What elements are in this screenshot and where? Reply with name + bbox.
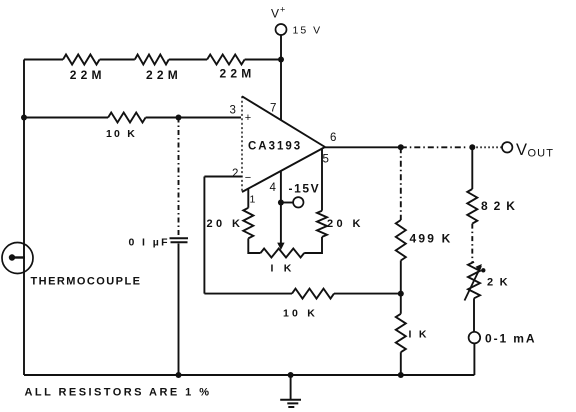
wire meter to bottom rail [473, 343, 475, 375]
wire output to Vout junction [401, 146, 467, 148]
resistor R2 22M [135, 55, 169, 65]
svg-text:3: 3 [230, 105, 237, 117]
svg-text:15 V: 15 V [293, 25, 323, 37]
svg-text:V: V [516, 141, 527, 159]
svg-text:20 K: 20 K [327, 218, 364, 230]
wire R9 bottom lead [400, 261, 402, 294]
wire R11 to R12 [471, 224, 473, 262]
svg-text:4: 4 [270, 182, 277, 194]
terminal VOUT [502, 142, 512, 152]
svg-text:7: 7 [270, 103, 277, 115]
wire pin2 stub [204, 176, 242, 178]
svg-text:ALL RESISTORS ARE 1 %: ALL RESISTORS ARE 1 % [25, 387, 212, 399]
wire top rail segment d [245, 59, 281, 61]
svg-text:I K: I K [271, 263, 296, 275]
rheostat R12 arrow [465, 266, 482, 301]
svg-text:0 I µF: 0 I µF [129, 237, 170, 249]
wire V+ to top rail [280, 35, 282, 60]
svg-text:I K: I K [409, 329, 429, 341]
junction bottom cap [176, 372, 182, 378]
svg-text:−: − [245, 172, 251, 184]
svg-text:+: + [280, 5, 285, 15]
wire R10 bottom lead [400, 352, 402, 375]
wire R10 top lead [400, 294, 402, 314]
svg-text:20 K: 20 K [207, 218, 244, 230]
ground stub [290, 375, 292, 399]
wire top rail segment c [169, 59, 207, 61]
wire R9 top lead [400, 147, 402, 220]
thermocouple TC1 body [2, 243, 33, 274]
op-amp U1 CA3193 top edge [242, 96, 325, 147]
wire bottom rail [24, 374, 474, 376]
terminal V+ supply [276, 24, 287, 35]
wire pot right to 20K [304, 237, 322, 253]
terminal -15V supply [293, 197, 303, 207]
junction top rail V+ [278, 57, 284, 63]
junction inverting loop [398, 291, 404, 297]
resistor R6 20K left [243, 208, 253, 239]
svg-text:-15V: -15V [289, 182, 321, 196]
wire inverting loop left [203, 177, 205, 294]
svg-text:10 K: 10 K [283, 308, 318, 320]
wire 20K left to pot [248, 238, 260, 253]
rheostat R12 2K [468, 262, 480, 299]
wire output pin6 [325, 146, 401, 148]
thermocouple junction symbol [9, 254, 15, 260]
wire top rail segment a [24, 59, 63, 61]
wire pin4 to wiper [280, 171, 282, 245]
wire capacitor top lead [178, 118, 180, 236]
junction output R11 tap [469, 144, 475, 150]
rheostat wiper tie dot [481, 268, 485, 272]
junction output R9 tap [398, 144, 404, 150]
op-amp U1 bottom edge [242, 147, 325, 192]
svg-text:V: V [271, 7, 279, 21]
meter M1 0-1mA body [469, 332, 481, 344]
wire -15V stub [281, 202, 293, 204]
resistor R10 1K [396, 314, 406, 352]
pot wiper arrowhead [277, 243, 284, 250]
svg-text:22M: 22M [220, 67, 256, 81]
wire pin1 lead [247, 189, 249, 208]
svg-text:22M: 22M [146, 68, 182, 82]
potentiometer R7 1K [261, 249, 305, 258]
wire R11 top lead [471, 147, 473, 189]
svg-text:10 K: 10 K [106, 128, 137, 140]
svg-text:6: 6 [330, 132, 337, 144]
resistor R9 499K [396, 220, 406, 261]
junction pin4 -15V tap [278, 200, 284, 206]
wire noninverting input b [146, 117, 241, 119]
junction cap tap [176, 115, 182, 121]
op-amp U1 left edge [241, 96, 243, 192]
svg-text:+: + [245, 112, 251, 124]
resistor R3 22M [207, 55, 245, 65]
svg-text:2 K: 2 K [487, 277, 509, 289]
svg-text:8 2 K: 8 2 K [481, 199, 516, 213]
resistor R4 10K [108, 113, 146, 123]
wire top rail segment b [100, 59, 135, 61]
svg-text:0-1 mA: 0-1 mA [485, 332, 536, 346]
capacitor C1 0.1uF [170, 238, 189, 242]
junction bottom R10 [398, 372, 404, 378]
resistor R1 22M [63, 55, 100, 65]
wire R12 to meter [473, 298, 475, 332]
svg-text:499 K: 499 K [410, 232, 453, 246]
wire inverting loop bottom b [334, 293, 401, 295]
svg-text:1: 1 [250, 194, 257, 206]
wire noninverting input a [24, 117, 108, 119]
svg-text:22M: 22M [70, 68, 106, 82]
resistor R8 20K right [317, 211, 327, 237]
resistor R5 10K [292, 289, 334, 299]
wire pin5 lead [321, 149, 323, 211]
wire capacitor bottom lead [178, 244, 180, 376]
junction bottom ground [288, 372, 294, 378]
wire pin7 supply [280, 60, 282, 121]
svg-text:CA3193: CA3193 [248, 141, 302, 153]
svg-text:THERMOCOUPLE: THERMOCOUPLE [31, 276, 142, 288]
resistor R11 8.2K [467, 189, 477, 224]
junction left rail row2 [21, 115, 27, 121]
ground symbol [280, 400, 301, 407]
wire left rail [23, 60, 25, 376]
svg-text:5: 5 [323, 154, 330, 166]
svg-text:2: 2 [232, 168, 239, 180]
wire inverting loop bottom a [204, 293, 292, 295]
svg-text:OUT: OUT [528, 148, 555, 160]
wire to Vout terminal [472, 146, 502, 148]
